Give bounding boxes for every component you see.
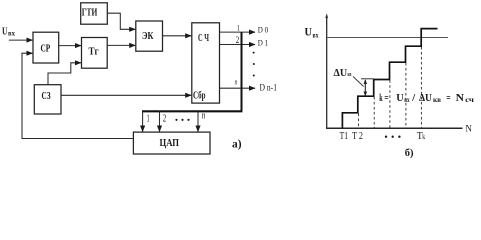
svg-text:ЦАП: ЦАП [160,137,180,149]
svg-text:D 0: D 0 [258,25,268,34]
svg-text:вх: вх [404,96,410,104]
svg-text:Тг: Тг [89,47,99,58]
svg-text:U: U [305,27,313,39]
svg-text:а): а) [232,139,242,151]
svg-text:T 2: T 2 [352,131,363,142]
svg-text:ΔU: ΔU [419,93,432,104]
svg-text:ГТИ: ГТИ [82,8,98,19]
svg-text:n: n [235,78,238,87]
svg-text:T1: T1 [340,131,348,142]
svg-text:2: 2 [236,35,240,45]
svg-text:1: 1 [147,114,150,125]
svg-text:k: k [422,133,425,141]
svg-text:СЗ: СЗ [42,91,51,102]
svg-text:Сбр: Сбр [193,91,206,102]
svg-text:k: k [379,93,382,104]
svg-text:U: U [396,93,404,104]
svg-text:С Ч: С Ч [198,33,209,44]
svg-text:=: = [384,93,388,104]
svg-text:кв: кв [433,96,441,104]
svg-text:2: 2 [163,113,167,124]
svg-text:N: N [456,93,465,104]
svg-text:D 1: D 1 [258,39,268,48]
svg-text:вх: вх [8,29,15,37]
svg-text:n: n [202,111,206,122]
svg-text:кв: кв [348,71,352,78]
svg-text:б): б) [405,148,414,159]
svg-text:ЭК: ЭК [142,31,154,42]
svg-text:сч: сч [465,96,474,104]
svg-text:вх: вх [313,30,319,39]
svg-text:1: 1 [237,22,240,32]
svg-text:=: = [446,93,450,104]
svg-text:U: U [2,26,8,37]
svg-text:N: N [465,124,472,134]
svg-text:ΔU: ΔU [334,68,348,79]
svg-text:СР: СР [41,43,51,55]
svg-text:D n-1: D n-1 [260,83,278,93]
